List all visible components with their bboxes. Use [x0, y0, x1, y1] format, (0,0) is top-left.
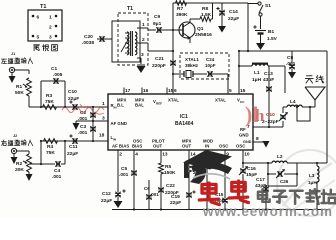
svg-text:L1: L1 — [254, 70, 260, 76]
svg-text:R7: R7 — [177, 6, 183, 12]
junction C13 pin7 — [268, 126, 270, 128]
switch S1 — [248, 2, 271, 16]
svg-text:2: 2 — [142, 37, 145, 43]
svg-text:.001: .001 — [52, 174, 62, 180]
svg-text:C26: C26 — [280, 179, 289, 184]
svg-text:1μH: 1μH — [252, 77, 262, 83]
wire to L1 — [238, 65, 252, 67]
transformer T1 label — [127, 6, 133, 12]
battery B1 1.5V — [253, 16, 277, 43]
pin 8 ground — [253, 136, 270, 148]
antenna coupling loop — [296, 106, 311, 121]
capacitor C12 22uF — [101, 189, 126, 204]
svg-text:5: 5 — [37, 35, 40, 41]
ground under C14 — [218, 26, 226, 33]
variable capacitor C26 — [267, 170, 298, 184]
svg-text:1.5K: 1.5K — [201, 12, 212, 18]
svg-text:C19: C19 — [171, 194, 180, 200]
svg-text:GND: GND — [239, 133, 249, 138]
svg-text:6: 6 — [174, 88, 177, 94]
connector T1 bottom-view box — [28, 10, 62, 41]
pin13 column — [160, 156, 162, 209]
wire bypass down — [64, 81, 66, 108]
pin 12 tick — [207, 150, 214, 158]
svg-text:17: 17 — [125, 88, 131, 94]
T1 pin 3 — [137, 52, 144, 66]
svg-text:h: h — [255, 106, 265, 125]
pin 17 MPX B.L — [117, 88, 131, 108]
svg-text:1μH: 1μH — [308, 180, 317, 185]
capacitor C6 .001 — [144, 180, 159, 209]
resistor R8 1.5K — [190, 3, 213, 21]
variable capacitor C10 2~22pF — [262, 107, 287, 127]
ground below R2 — [26, 172, 33, 181]
svg-text:13: 13 — [162, 152, 168, 158]
pin 7 wire — [253, 126, 283, 128]
antenna 天线 — [305, 75, 325, 107]
svg-text:J1: J1 — [11, 52, 15, 56]
svg-text:R3: R3 — [46, 93, 52, 99]
wire R1 to node — [28, 96, 30, 107]
svg-text:16: 16 — [143, 88, 149, 94]
Vcc vertical wire — [247, 3, 249, 51]
svg-text:C21: C21 — [155, 56, 164, 62]
svg-text:150K: 150K — [164, 170, 176, 176]
potentiometer R1 50K — [15, 78, 31, 96]
svg-text:C4: C4 — [54, 168, 60, 174]
svg-text:5: 5 — [229, 88, 232, 94]
junction nodes — [92, 106, 94, 142]
junction A — [40, 106, 42, 108]
watermark red scribble over wire — [62, 104, 104, 114]
svg-text:10pF: 10pF — [205, 63, 216, 68]
capacitor C21 220pF — [152, 56, 176, 69]
pin 1 R-in — [102, 101, 117, 110]
wire L1 to C13 — [268, 66, 285, 93]
pin2 column — [117, 156, 119, 201]
svg-text:RF: RF — [240, 127, 246, 132]
svg-text:3: 3 — [49, 35, 52, 41]
svg-text:OUT: OUT — [182, 144, 191, 149]
capacitor C8 .001 — [286, 51, 296, 72]
svg-text:43pF: 43pF — [263, 77, 274, 83]
bottom ground rail — [112, 208, 330, 210]
svg-text:2~22pF: 2~22pF — [262, 119, 279, 125]
crystal XTAL1 symbol — [172, 71, 207, 78]
junction base node — [172, 29, 174, 31]
label 右通道输入 — [1, 134, 32, 146]
svg-text:T1: T1 — [127, 6, 133, 12]
svg-text:18: 18 — [99, 133, 105, 139]
svg-text:REF: REF — [156, 102, 162, 106]
pin 7 RF GND — [239, 124, 250, 138]
svg-text:C13: C13 — [264, 71, 273, 77]
svg-text:R8: R8 — [202, 6, 208, 12]
wire C4 up — [64, 140, 66, 164]
svg-text:C9: C9 — [154, 14, 160, 20]
T1 pin 2 — [137, 37, 173, 51]
svg-text:8: 8 — [256, 136, 259, 142]
pin 14 tick — [189, 150, 196, 158]
pin4 column — [133, 156, 135, 209]
capacitor C20 .0038 — [82, 34, 112, 46]
svg-text:1: 1 — [102, 101, 105, 107]
capacitor C13 43pF — [263, 66, 274, 127]
svg-text:T1: T1 — [40, 4, 46, 10]
svg-text:4: 4 — [135, 152, 138, 158]
bias column — [172, 3, 174, 90]
resistor R5 150K — [159, 163, 176, 176]
wire bypass up — [40, 81, 42, 107]
svg-text:BAL: BAL — [135, 103, 144, 108]
svg-text:22μF: 22μF — [67, 151, 78, 157]
svg-text:OUT: OUT — [153, 144, 162, 149]
transistor Q1 2N5816 — [179, 19, 212, 43]
svg-text:www.eeworm.com: www.eeworm.com — [202, 204, 333, 218]
transformer T1 windings — [121, 31, 137, 56]
svg-text:XTAL: XTAL — [168, 98, 179, 103]
svg-text:1.5V: 1.5V — [267, 36, 278, 42]
svg-text:GND: GND — [243, 140, 252, 144]
svg-text:AF GND: AF GND — [111, 121, 127, 126]
svg-text:L3: L3 — [309, 173, 315, 178]
right border wire — [326, 51, 328, 163]
ground under T1 — [137, 66, 146, 73]
svg-text:1: 1 — [142, 22, 145, 28]
ground below J2 — [11, 154, 18, 164]
svg-text:C12: C12 — [102, 191, 111, 197]
inductor L2 — [267, 154, 297, 164]
svg-text:C8: C8 — [287, 55, 293, 61]
svg-text:C16: C16 — [247, 166, 256, 172]
svg-text:38kHz: 38kHz — [185, 63, 199, 68]
svg-text:.001: .001 — [78, 130, 88, 136]
svg-text:L4: L4 — [290, 99, 296, 105]
wire left-channel line — [41, 140, 108, 142]
svg-text:C17: C17 — [256, 177, 265, 183]
connector T1 bottom-view label — [40, 4, 46, 10]
svg-text:IC1: IC1 — [180, 114, 188, 120]
svg-text:.0038: .0038 — [82, 40, 94, 46]
svg-text:XTAL: XTAL — [215, 98, 226, 103]
pin 5 XTAL — [215, 88, 232, 103]
pin10 column — [242, 156, 244, 209]
svg-text:R1: R1 — [16, 84, 22, 90]
svg-text:20K: 20K — [15, 167, 24, 173]
watermark light gray eeworm logo circle — [277, 150, 336, 216]
ground under battery — [256, 43, 265, 50]
capacitor C10 22uF — [68, 89, 79, 110]
capacitor C19 22pF — [170, 190, 196, 206]
svg-text:.005: .005 — [53, 72, 63, 78]
AF GND wire — [76, 120, 108, 122]
svg-text:J2: J2 — [13, 134, 17, 138]
watermark red partial glyphs — [245, 102, 265, 127]
svg-text:220pF: 220pF — [152, 63, 166, 69]
resistor R4 75K — [44, 139, 58, 156]
capacitor C2 .001 — [78, 110, 96, 122]
capacitor C24 10pF — [205, 57, 228, 77]
wire right-channel line — [29, 106, 108, 108]
top rail wire — [173, 2, 248, 4]
pin 16 MPX BAL — [135, 88, 149, 108]
pin 9 tick — [225, 150, 229, 158]
inductor L1 1uH — [252, 64, 268, 84]
ground under C8 — [288, 72, 296, 79]
ground below J1 — [9, 73, 16, 83]
svg-text:C10: C10 — [266, 112, 275, 118]
svg-text:S1: S1 — [265, 3, 271, 9]
svg-text:22μF: 22μF — [228, 16, 239, 22]
svg-text:C3: C3 — [80, 124, 86, 130]
svg-text:2: 2 — [119, 152, 122, 158]
pin 4 tick — [134, 150, 138, 158]
svg-text:OSC: OSC — [236, 144, 245, 149]
svg-text:1: 1 — [49, 15, 52, 21]
svg-text:3: 3 — [102, 116, 105, 122]
svg-text:C11: C11 — [69, 144, 78, 150]
pin 15 Vref — [153, 88, 174, 106]
watermark red 虫虫 characters — [199, 181, 248, 205]
resistor R3 75K — [43, 93, 57, 109]
transformer shield box — [112, 21, 140, 62]
svg-text:B1: B1 — [268, 29, 274, 35]
jack J2 — [11, 148, 16, 153]
svg-text:C20: C20 — [84, 34, 93, 40]
pin 18 L-in — [99, 133, 117, 142]
svg-text:75K: 75K — [45, 99, 54, 105]
svg-text:43pF: 43pF — [255, 183, 266, 189]
svg-text:C14: C14 — [229, 9, 238, 15]
svg-text:L2: L2 — [277, 154, 283, 160]
watermark black graduation cap — [183, 150, 232, 184]
IC1 BA1404 body — [108, 94, 253, 150]
capacitor C3 .001 — [78, 124, 96, 136]
svg-text:2N5816: 2N5816 — [195, 32, 212, 38]
tank right vertical — [296, 163, 298, 186]
svg-text:R2: R2 — [16, 161, 22, 167]
svg-text:390K: 390K — [176, 12, 188, 18]
pin14 column — [188, 156, 190, 209]
svg-text:BA1404: BA1404 — [175, 121, 194, 127]
ground on AF GND line — [73, 121, 80, 130]
svg-text:75K: 75K — [46, 150, 55, 156]
svg-text:.001: .001 — [119, 172, 129, 178]
wire crystal to pin5 — [227, 74, 229, 90]
capacitor C11 22uF — [67, 134, 78, 157]
svg-text:50K: 50K — [15, 90, 24, 96]
resistor R7 390K — [176, 1, 189, 18]
svg-text:BIAS: BIAS — [132, 144, 142, 149]
svg-text:22μF: 22μF — [68, 96, 79, 102]
pin12 column — [206, 156, 208, 209]
svg-text:B.L: B.L — [117, 103, 124, 108]
svg-text:.001: .001 — [150, 192, 159, 197]
pin 15 Vcc — [237, 88, 246, 105]
coupling column wire — [92, 107, 94, 141]
svg-text:R5: R5 — [165, 164, 171, 170]
svg-text:Q1: Q1 — [197, 26, 204, 32]
wire R2 wiper row — [29, 163, 65, 165]
label 左通道输入 — [1, 52, 32, 64]
svg-text:C1: C1 — [51, 66, 57, 72]
caption 底视图 — [34, 45, 58, 51]
capacitor C14 22uF — [216, 3, 239, 26]
pin 13 tick — [161, 150, 168, 158]
IC1 name — [175, 114, 194, 127]
crystal dashed box — [180, 53, 229, 79]
capacitor C15 15pF — [214, 192, 228, 203]
wire T1 pin1 to C9 — [148, 28, 156, 30]
IC bottom labels — [112, 139, 252, 149]
capacitor C17 43pF — [255, 177, 269, 209]
capacitor C4 .001 — [52, 161, 62, 180]
tank left vertical — [267, 163, 269, 186]
variable capacitor C16 15pF — [239, 166, 257, 178]
svg-text:C6: C6 — [144, 186, 150, 191]
inductor L4 — [283, 99, 315, 107]
pin9 column — [224, 156, 226, 209]
svg-text:22pF: 22pF — [170, 200, 181, 206]
capacitor C9 — [153, 14, 179, 33]
pin 2 tick — [118, 150, 122, 158]
svg-text:C22: C22 — [166, 183, 175, 189]
ground into rail under C12 — [114, 201, 123, 208]
svg-text:R4: R4 — [47, 144, 53, 150]
svg-text:C5: C5 — [121, 166, 127, 172]
svg-text:IN: IN — [205, 144, 209, 149]
svg-text:C24: C24 — [206, 57, 215, 62]
pin 6 XTAL — [168, 88, 179, 103]
pin 10 tick — [243, 150, 250, 158]
svg-text:XTAL1: XTAL1 — [185, 57, 199, 62]
connector T1 pin dots — [32, 15, 58, 41]
svg-text:22μF: 22μF — [101, 198, 112, 204]
svg-text:10: 10 — [244, 152, 250, 158]
svg-text:C10: C10 — [68, 89, 77, 95]
watermark gray 电子下载站 — [258, 189, 336, 204]
jack J1 — [9, 67, 14, 72]
tank bottom wire — [265, 185, 297, 187]
crystal labels XTAL1 38kHz — [185, 57, 199, 68]
Vcc drop to pin 15 — [238, 50, 249, 90]
potentiometer R2 20K — [15, 154, 31, 173]
wire tank to border — [297, 162, 327, 164]
T1 pin 1 — [137, 22, 148, 28]
svg-text:6: 6 — [37, 15, 40, 21]
Vcc rail to right — [239, 50, 327, 52]
pin 3 AF GND — [102, 116, 127, 127]
wire J2 to R2 — [16, 151, 29, 154]
resistor R6 2.2K — [187, 160, 204, 176]
svg-text:15: 15 — [240, 88, 246, 94]
inductor L3 1uH — [308, 163, 319, 209]
capacitor C1 .005 — [41, 66, 65, 84]
wire branch vertical — [40, 140, 42, 165]
transformer dashed box — [118, 13, 148, 65]
svg-text:3: 3 — [141, 52, 144, 58]
capacitor C22 220pF — [158, 183, 179, 196]
svg-text:OSC: OSC — [219, 144, 228, 149]
svg-text:2: 2 — [49, 25, 52, 31]
svg-text:9μ1: 9μ1 — [153, 21, 162, 27]
wire J1 to R1 — [14, 70, 29, 74]
svg-text:.001: .001 — [286, 61, 296, 67]
capacitor C5 .001 — [119, 166, 137, 178]
svg-text:AF BIAS: AF BIAS — [112, 144, 129, 149]
pin10 wire right — [242, 162, 268, 164]
